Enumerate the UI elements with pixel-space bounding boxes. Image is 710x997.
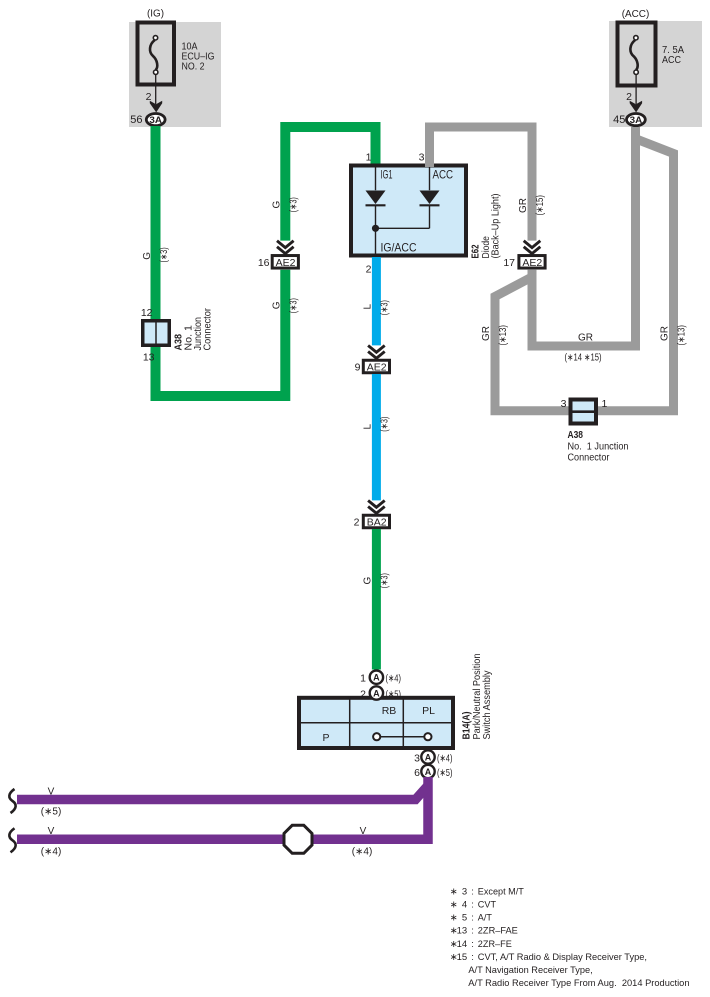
- svg-text:∗: ∗: [450, 913, 458, 924]
- svg-text::: :: [471, 926, 474, 937]
- svg-text:AE2: AE2: [367, 362, 387, 374]
- svg-text:∗: ∗: [450, 900, 458, 911]
- wire V: upper run with diagonal: [17, 786, 428, 800]
- svg-text:GR: GR: [518, 198, 529, 213]
- svg-text:(∗13): (∗13): [676, 325, 687, 346]
- park/neutral position switch assembly box: [299, 698, 453, 748]
- junction connector A38 (right): [571, 400, 597, 424]
- svg-text:NO. 2: NO. 2: [182, 62, 205, 73]
- svg-text:9: 9: [355, 362, 361, 374]
- svg-text:(∗13): (∗13): [498, 325, 509, 346]
- svg-text:BA2: BA2: [367, 517, 387, 529]
- svg-text:G: G: [363, 577, 374, 585]
- wire G: segment above AE2 16 to diode pin 1: [285, 127, 375, 241]
- wire V: pin 6 down and left (lower run): [17, 777, 428, 839]
- svg-text:(∗5): (∗5): [41, 807, 62, 818]
- fuse lead wire: [155, 75, 157, 105]
- svg-text:(IG): (IG): [147, 8, 164, 20]
- switch pin circle 1: [370, 671, 383, 684]
- svg-text:(∗4): (∗4): [41, 846, 62, 857]
- svg-text:IG/ACC: IG/ACC: [381, 241, 417, 255]
- svg-text:V: V: [360, 826, 367, 837]
- svg-text:IG1: IG1: [381, 168, 393, 182]
- svg-text:(∗3): (∗3): [289, 298, 300, 313]
- svg-text:ACC: ACC: [433, 168, 454, 182]
- svg-text:CVT: CVT: [478, 900, 496, 911]
- svg-text:3A: 3A: [630, 115, 643, 126]
- svg-text:17: 17: [503, 257, 515, 269]
- svg-text:Switch Assembly: Switch Assembly: [482, 671, 493, 740]
- fuse panel (ACC) background: [609, 21, 702, 127]
- svg-text:2: 2: [366, 264, 372, 276]
- svg-text:(∗15): (∗15): [535, 195, 546, 216]
- svg-text:6: 6: [414, 767, 420, 779]
- fuse element: [630, 36, 638, 75]
- diode IG1 branch: [376, 166, 430, 257]
- connector AE2 pin 16: [277, 241, 294, 254]
- junction dot: [372, 225, 379, 232]
- connector AE2 pin 17: [524, 241, 541, 254]
- wire break mark upper: [9, 789, 15, 813]
- svg-text:A38: A38: [568, 430, 584, 441]
- svg-text:3A: 3A: [149, 115, 162, 126]
- svg-text:A/T Navigation Receiver Type,: A/T Navigation Receiver Type,: [468, 965, 592, 976]
- svg-text:1: 1: [366, 152, 372, 164]
- svg-text:3: 3: [414, 752, 420, 764]
- svg-text:A: A: [373, 673, 380, 683]
- connector AE2 pin 9: [368, 346, 385, 359]
- svg-text:4: 4: [462, 900, 467, 911]
- svg-text:(∗3): (∗3): [380, 417, 391, 432]
- svg-text::: :: [471, 900, 474, 911]
- diode symbol IG1: [366, 191, 386, 205]
- fuse panel (IG) background: [129, 22, 221, 127]
- svg-text:ACC: ACC: [662, 55, 681, 66]
- svg-text:(∗3): (∗3): [159, 247, 170, 262]
- wire G: BA2 down to switch pin 1: [372, 529, 381, 670]
- svg-text:3: 3: [462, 886, 467, 897]
- svg-text::: :: [471, 913, 474, 924]
- svg-text:2ZR–FE: 2ZR–FE: [478, 939, 512, 950]
- svg-text:1: 1: [360, 673, 366, 685]
- arrow into connector 3A: [630, 101, 642, 113]
- svg-text:2: 2: [146, 91, 152, 103]
- connector 3A (IG) oval: [146, 114, 165, 126]
- connector 3A (ACC) oval: [627, 114, 646, 126]
- svg-text:A: A: [425, 752, 432, 762]
- svg-text:2: 2: [360, 688, 366, 700]
- svg-text:5: 5: [462, 913, 467, 924]
- svg-text:(∗3): (∗3): [380, 300, 391, 315]
- junction connector A38 (left): [143, 321, 170, 346]
- svg-text:L: L: [363, 424, 374, 430]
- svg-text:∗: ∗: [450, 886, 458, 897]
- svg-text:(∗3): (∗3): [289, 197, 300, 212]
- fuse 10A ECU-IG NO.2 box: [138, 23, 175, 85]
- svg-text:13: 13: [143, 352, 155, 364]
- svg-text:A/T: A/T: [478, 913, 492, 924]
- svg-text:A: A: [425, 767, 432, 777]
- svg-text:G: G: [272, 201, 283, 209]
- svg-text:(∗4): (∗4): [437, 752, 453, 764]
- svg-text:56: 56: [130, 114, 142, 126]
- svg-text::: :: [471, 886, 474, 897]
- svg-text:Connector: Connector: [568, 453, 611, 464]
- connector BA2 pin 2: [368, 501, 385, 514]
- fuse element: [150, 36, 158, 75]
- wire L: AE2 9 down to BA2 2: [372, 374, 381, 500]
- fuse 7.5A ACC box: [618, 23, 656, 86]
- wire GR: branch from 3A(ACC) down to A38 pin 1: [596, 140, 674, 411]
- svg-text:13: 13: [457, 926, 468, 937]
- diode box E62 fill: [351, 166, 466, 256]
- svg-text:RB: RB: [382, 705, 397, 717]
- wire G: 3A(IG) down, across, up to diode pin 1 (segment below AE2 16): [156, 126, 286, 396]
- svg-text:A: A: [373, 688, 380, 698]
- svg-text:(ACC): (ACC): [622, 8, 650, 20]
- diode symbol ACC: [420, 191, 440, 205]
- svg-text:(∗5): (∗5): [437, 767, 453, 779]
- svg-text:1: 1: [602, 398, 608, 410]
- svg-text:Except M/T: Except M/T: [478, 886, 524, 897]
- svg-text:14: 14: [457, 939, 468, 950]
- svg-text:No. 1 Junction: No. 1 Junction: [568, 442, 629, 453]
- svg-text:3: 3: [561, 398, 567, 410]
- svg-text:AE2: AE2: [522, 257, 542, 269]
- svg-text:PL: PL: [422, 705, 435, 717]
- svg-text:V: V: [48, 826, 55, 837]
- svg-text:L: L: [363, 304, 374, 310]
- svg-text:GR: GR: [659, 326, 670, 341]
- svg-text:G: G: [272, 301, 283, 309]
- svg-text:(∗3): (∗3): [380, 573, 391, 588]
- svg-text::: :: [471, 939, 474, 950]
- switch pin circle 3: [421, 750, 434, 763]
- svg-text::: :: [471, 952, 474, 963]
- svg-text:V: V: [48, 787, 55, 798]
- svg-text:CVT, A/T Radio & Display Recei: CVT, A/T Radio & Display Receiver Type,: [478, 952, 647, 963]
- svg-text:A/T Radio Receiver Type From A: A/T Radio Receiver Type From Aug. 2014 P…: [468, 978, 689, 989]
- svg-text:(∗4): (∗4): [386, 673, 402, 685]
- svg-text:3: 3: [419, 152, 425, 164]
- svg-text:2: 2: [354, 517, 360, 529]
- svg-text:(∗14 ∗15): (∗14 ∗15): [565, 353, 602, 364]
- switch pin circle 6: [421, 765, 434, 778]
- svg-text:P: P: [322, 732, 329, 744]
- svg-text:12: 12: [141, 307, 153, 319]
- fuse lead wire: [635, 75, 637, 105]
- svg-text:15: 15: [457, 952, 468, 963]
- svg-text:45: 45: [613, 114, 625, 126]
- svg-text:AE2: AE2: [276, 257, 296, 269]
- footnotes: [450, 886, 690, 989]
- wire GR: diode pin 3 up and across to AE2 17: [430, 127, 533, 241]
- svg-text:B14(A): B14(A): [462, 712, 473, 740]
- switch pin circle 2: [370, 686, 383, 699]
- arrow into connector 3A: [150, 101, 162, 113]
- svg-text:(∗5): (∗5): [386, 688, 402, 700]
- svg-text:2: 2: [626, 91, 632, 103]
- switch contacts: [380, 736, 424, 738]
- svg-text:Connector: Connector: [203, 307, 214, 350]
- svg-text:(∗4): (∗4): [352, 846, 373, 857]
- svg-text:16: 16: [258, 257, 270, 269]
- splice octagon: [284, 825, 312, 853]
- wire break mark lower: [9, 828, 15, 852]
- svg-text:GR: GR: [578, 333, 593, 344]
- wire L: diode pin 2 down to AE2 9: [372, 257, 381, 345]
- svg-text:(Back–Up Light): (Back–Up Light): [491, 194, 502, 259]
- svg-text:2ZR–FAE: 2ZR–FAE: [478, 926, 518, 937]
- wire GR: branch from AE2 17 lead to A38 pin 3: [495, 278, 573, 411]
- svg-text:G: G: [142, 252, 153, 260]
- wire GR: AE2 17 down, right, up to 3A(ACC): [532, 127, 636, 346]
- svg-text:GR: GR: [481, 326, 492, 341]
